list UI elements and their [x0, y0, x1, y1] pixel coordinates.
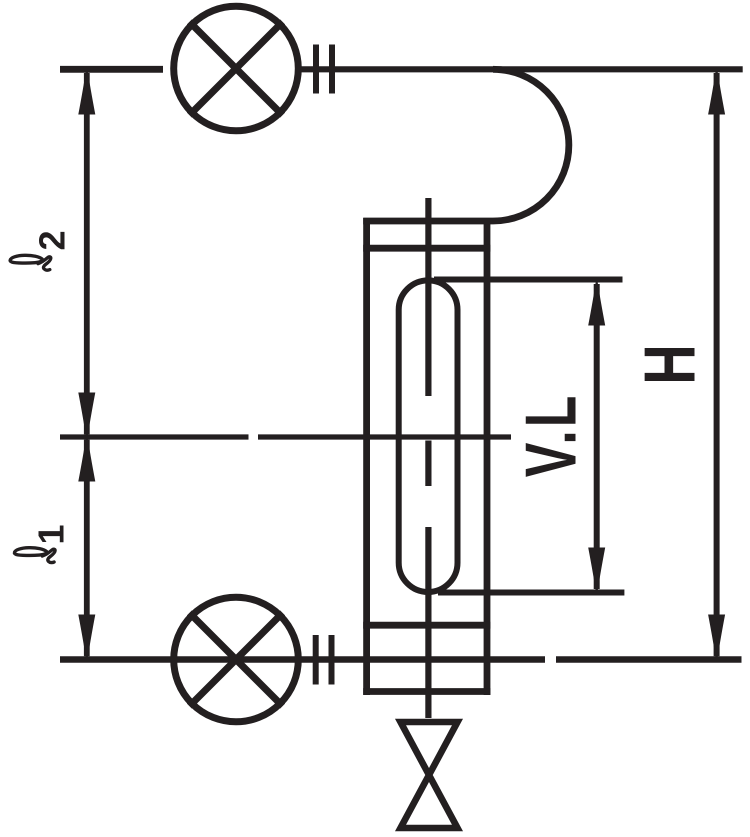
svg-text:V.L: V.L	[511, 393, 591, 478]
valve V2 cross	[189, 613, 282, 706]
arrowhead H bottom	[708, 615, 725, 659]
arrowhead H top	[708, 71, 725, 115]
gauge body top edge	[363, 218, 493, 225]
arrowhead l1 bottom	[78, 615, 95, 659]
drain valve bowtie	[401, 722, 458, 828]
valve V1 cross	[189, 22, 282, 115]
svg-text:2: 2	[32, 230, 73, 250]
valve V1 top circle	[174, 6, 299, 131]
gauge body bottom flange line	[363, 622, 490, 629]
V.L top extension line	[434, 277, 623, 283]
valve V2 bottom circle	[174, 597, 299, 722]
flange F2 ticks	[316, 635, 332, 685]
wire top pipe right segment	[302, 66, 743, 72]
label l1 script ell	[14, 548, 55, 563]
centerline horizontal segments	[60, 434, 511, 439]
arrowhead l1 top	[78, 438, 95, 482]
wire top pipe left segment	[60, 66, 163, 73]
label l2 script ell	[10, 255, 51, 270]
arrowhead VL top	[588, 282, 605, 326]
axis centerline vertical segments	[425, 198, 431, 718]
gauge body left edge	[363, 218, 370, 695]
arrowhead l2 bottom	[78, 393, 95, 437]
V.L dimension stem	[594, 284, 600, 589]
svg-text:H: H	[630, 344, 710, 385]
sight glass capsule	[399, 280, 458, 592]
pipe 180-degree bend	[493, 69, 569, 221]
wire bottom pipe segments	[60, 656, 742, 662]
svg-text:1: 1	[31, 524, 72, 544]
arrowhead l2 top	[78, 71, 95, 115]
flange F1 ticks	[316, 45, 332, 94]
gauge body bottom edge	[363, 688, 490, 695]
arrowhead VL bottom	[588, 548, 605, 592]
gauge body top flange line	[363, 245, 490, 252]
dimension stem l2	[84, 73, 90, 434]
V.L bottom extension line	[438, 590, 624, 596]
dimension stem l1	[84, 440, 90, 657]
gauge body right edge	[484, 218, 491, 695]
H dimension stem	[714, 73, 720, 656]
